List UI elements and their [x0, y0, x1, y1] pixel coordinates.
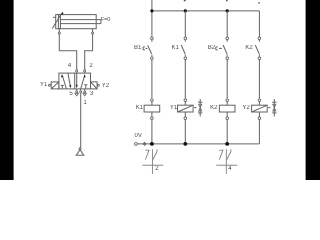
- label K1 (contact): [172, 45, 179, 51]
- B1 proximity bracket: [143, 47, 145, 50]
- valve 1V (5/2-way) body: [59, 73, 91, 89]
- valve right square flow path 1->2: [81, 77, 85, 89]
- junction dot rail/rung2: [184, 9, 187, 12]
- 0V connector diamond: [143, 142, 146, 145]
- port number 4: [68, 63, 71, 69]
- B2 proximity bracket: [216, 47, 218, 50]
- relay coil K2: [219, 99, 235, 119]
- position marker B2 (ruler): [216, 149, 237, 174]
- exhaust silencer triangle port 5: [75, 93, 79, 96]
- rung4 wire rail corner to contact: [258, 11, 260, 37]
- valve label Y1: [40, 82, 47, 88]
- label F=0: [101, 18, 111, 24]
- left pillarbox bar: [0, 0, 14, 180]
- rung2 wire rail to contact: [184, 11, 186, 37]
- label B2: [208, 45, 215, 51]
- contact K1 (NO): [181, 37, 186, 59]
- label Y2 (coil): [242, 105, 249, 111]
- junction dot rail/rung3: [226, 9, 229, 12]
- junction dot 0V/rung2: [183, 142, 187, 146]
- supply line port 1 to air source: [80, 93, 82, 148]
- wire cylinder left port to valve port 4: [59, 34, 76, 70]
- cushion adjust tick: [53, 16, 56, 18]
- rung3 wire rail to contact: [226, 11, 228, 37]
- wire coil K1 to 0V rail: [151, 120, 153, 144]
- Y2 valve-solenoid indicator: [268, 99, 276, 117]
- right pillarbox bar: [306, 0, 320, 180]
- piston: [58, 15, 60, 29]
- solenoid Y1 box: [48, 82, 58, 89]
- label K2 (coil): [210, 105, 217, 111]
- cropped label speck above rung2: [184, 0, 186, 1]
- wire contact K1 to coil Y1: [184, 60, 186, 99]
- wire contact K2 to coil Y2: [258, 60, 260, 99]
- solenoid coil Y1: [178, 99, 194, 119]
- position marker B1 (ruler): [142, 149, 163, 174]
- 0V terminal circle: [135, 143, 138, 146]
- label K1 (coil): [136, 105, 143, 111]
- port number 1: [83, 100, 86, 106]
- junction dot 0V/rung1: [150, 142, 154, 146]
- port number 3: [90, 91, 93, 97]
- piston rod: [60, 20, 101, 24]
- exhaust silencer triangle port 3: [83, 93, 87, 96]
- valve left square blocked port 5: [61, 85, 64, 89]
- valve bottom port circles (5,1,3): [76, 89, 86, 93]
- contact K2 (NO): [255, 37, 260, 59]
- marker digit 4: [228, 166, 231, 172]
- supply drop into rung 1: [151, 0, 153, 37]
- valve right square flow path 4->5: [76, 73, 88, 89]
- valve top port circles (4,2): [76, 70, 86, 73]
- wire coil K2 to 0V rail: [226, 120, 228, 144]
- valve right square blocked port 3: [84, 85, 87, 89]
- wire contact B1 to coil K1: [151, 60, 153, 99]
- solenoid Y2 box: [91, 82, 100, 89]
- wire contact B2 to coil K2: [226, 60, 228, 99]
- label Y1 (coil): [170, 105, 177, 111]
- marker digit 2: [155, 166, 158, 172]
- wire coil Y2 to 0V rail corner: [258, 120, 260, 144]
- cropped label speck above rung3: [226, 0, 228, 1]
- cylinder 1A (double-acting, body): [52, 12, 101, 29]
- wire cylinder right port to valve port 2: [85, 34, 93, 70]
- Y1 valve-solenoid indicator: [194, 99, 202, 117]
- 0V bottom rail: [137, 143, 259, 145]
- label K2 (contact): [245, 45, 252, 51]
- cropped label speck above rung4: [258, 2, 260, 4]
- label 0V: [135, 133, 142, 139]
- label B1: [134, 45, 141, 51]
- solenoid coil Y2: [252, 99, 268, 119]
- wire coil Y1 to 0V rail: [184, 120, 186, 144]
- valve label Y2: [102, 83, 109, 89]
- cushioning arrow: [52, 13, 62, 28]
- junction dot 0V/rung3: [225, 142, 229, 146]
- valve left square flow path 1->4: [61, 73, 72, 89]
- cylinder port circles: [58, 29, 93, 34]
- compressed air source: [76, 148, 84, 156]
- contact B2 (reed, NO): [216, 37, 229, 59]
- contact B1 (reed, NO): [143, 37, 153, 59]
- relay coil K1: [144, 99, 160, 119]
- +24V top rail: [152, 10, 260, 12]
- port number 5: [69, 91, 72, 97]
- valve left square flow path 2->3: [68, 73, 70, 85]
- port number 2: [89, 63, 92, 69]
- junction dot rail/rung1: [150, 9, 153, 12]
